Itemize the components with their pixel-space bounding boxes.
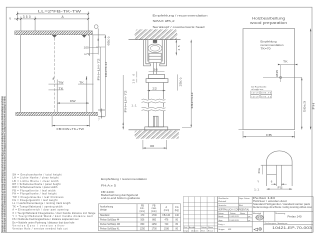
handle hole bbox=[280, 76, 282, 78]
revision grid labels bbox=[184, 226, 214, 232]
groove top surface line bbox=[261, 164, 292, 166]
svg-text:65(-): 65(-) bbox=[107, 37, 111, 46]
description text bbox=[253, 197, 312, 209]
svg-text:Gezeichn.: Gezeichn. bbox=[218, 205, 227, 207]
svg-text:FH=LH-72: FH=LH-72 bbox=[97, 58, 101, 81]
svg-text:GEZE: GEZE bbox=[256, 216, 263, 220]
svg-text:TK: TK bbox=[59, 86, 64, 90]
svg-text:13.05.2015: 13.05.2015 bbox=[229, 216, 238, 218]
break lines pair 1 bbox=[142, 99, 166, 103]
svg-text:FB-140: FB-140 bbox=[163, 215, 171, 217]
svg-text:DW: DW bbox=[70, 99, 76, 103]
small table at leaf weight bbox=[251, 87, 267, 92]
svg-text:Ausfuehrung: Ausfuehrung bbox=[100, 205, 114, 208]
dim DH=LH (section) bbox=[190, 40, 192, 128]
svg-text:DIN-44: DIN-44 bbox=[261, 96, 272, 98]
ceiling hatch band bbox=[135, 29, 178, 39]
leader note SPAX bbox=[153, 13, 208, 29]
svg-text:(mm): (mm) bbox=[151, 211, 157, 213]
roller wheel bbox=[148, 44, 162, 53]
svg-text:12fx9: 12fx9 bbox=[251, 93, 259, 95]
svg-text:Version Holz / version needed: Version Holz / version needed hub cut bbox=[12, 227, 67, 230]
notes above table bbox=[101, 177, 148, 200]
left margin rotated note text bbox=[1, 96, 6, 233]
svg-text:22: 22 bbox=[152, 87, 157, 91]
svg-text:(mm): (mm) bbox=[140, 211, 146, 213]
svg-text:Ø35: Ø35 bbox=[275, 69, 279, 77]
door panel middle bbox=[149, 103, 164, 108]
svg-text:Perlan SoftStop KL: Perlan SoftStop KL bbox=[100, 227, 120, 230]
svg-text:1036: 1036 bbox=[164, 228, 170, 230]
centerline dashed bbox=[54, 38, 56, 112]
svg-text:VERTRAULICH / CONFIDENTIAL: VERTRAULICH / CONFIDENTIAL bbox=[218, 209, 249, 212]
svg-text:Name: Name bbox=[208, 227, 213, 229]
svg-text:FS: FS bbox=[278, 185, 283, 189]
dim 22 bbox=[147, 90, 165, 92]
svg-text:10421-EP-70-003: 10421-EP-70-003 bbox=[272, 226, 312, 230]
svg-text:Benennung: Benennung bbox=[276, 213, 286, 215]
svg-text:13.05.15: 13.05.15 bbox=[191, 230, 198, 232]
svg-text:Gepr.: Gepr. bbox=[218, 219, 223, 222]
svg-text:TW: TW bbox=[58, 80, 63, 84]
clamp base bbox=[146, 79, 168, 83]
dim FH=LH-72 vertical bbox=[100, 47, 102, 112]
svg-text:1700: 1700 bbox=[152, 228, 158, 230]
svg-text:Holzbearbeitung: Holzbearbeitung bbox=[252, 17, 285, 21]
svg-text:Gepr. Datum: Gepr. Datum bbox=[239, 197, 250, 200]
svg-text:FH=LH-72: FH=LH-72 bbox=[124, 90, 128, 113]
svg-text:1:1: 1:1 bbox=[131, 103, 137, 107]
dim 45 bbox=[175, 40, 177, 56]
GEZE logo bbox=[256, 215, 264, 220]
svg-text:Perlan 140: Perlan 140 bbox=[288, 214, 302, 218]
dim FH bbox=[310, 29, 312, 130]
svg-text:Blatt: Blatt bbox=[239, 204, 243, 207]
svg-text:Datum: Datum bbox=[218, 212, 224, 215]
dim 30 bbox=[143, 140, 167, 149]
dim TW bbox=[49, 84, 94, 90]
svg-text:Zuwiderhandlungen verpflichten: Zuwiderhandlungen verpflichten zu Schade… bbox=[4, 96, 7, 233]
svg-text:Standard: Standard bbox=[100, 214, 110, 217]
svg-text:Datum: Datum bbox=[201, 226, 207, 229]
glass clamp plate bbox=[149, 74, 165, 78]
detail circle marker bbox=[94, 25, 98, 29]
up arrows at panel tops bbox=[53, 77, 54, 80]
svg-text:Perlan SoftStop 44: Perlan SoftStop 44 bbox=[100, 219, 120, 222]
svg-text:pe: pe bbox=[248, 216, 250, 218]
floor guide pin bbox=[153, 116, 158, 127]
svg-text:Empfehlung / recommendation: Empfehlung / recommendation bbox=[153, 13, 208, 17]
svg-text:≥70: ≥70 bbox=[84, 53, 91, 56]
svg-text:1250: 1250 bbox=[140, 228, 146, 230]
svg-text:Gruppe: Gruppe bbox=[218, 228, 224, 231]
svg-text:Perlan SoftStop 4M: Perlan SoftStop 4M bbox=[100, 223, 120, 226]
top track bar hatched bbox=[15, 31, 93, 35]
svg-text:Oberflaeche: Oberflaeche bbox=[218, 197, 228, 200]
bottom edge extension bbox=[239, 129, 244, 131]
svg-text:Empfehlung / recommendation: Empfehlung / recommendation bbox=[101, 177, 148, 181]
bottom bar end gap dim bbox=[98, 109, 105, 119]
svg-text:LL=2*FB-TK-TW: LL=2*FB-TK-TW bbox=[38, 10, 82, 14]
dim row2 line Y/350/A bbox=[14, 18, 88, 20]
mounting screw bbox=[153, 40, 157, 43]
right dim 65(-) bbox=[104, 35, 106, 117]
dim Ds bbox=[262, 165, 264, 174]
fixpoint triangle left bbox=[52, 35, 57, 38]
projection symbol bbox=[254, 228, 262, 231]
svg-text:Y: Y bbox=[257, 180, 259, 184]
svg-text:DH=LH: DH=LH bbox=[190, 93, 194, 109]
fixpoint triangle right bbox=[82, 35, 87, 38]
dome profile bbox=[267, 151, 293, 186]
svg-text:wood preparation: wood preparation bbox=[250, 21, 287, 25]
svg-text:12fx9: 12fx9 bbox=[251, 96, 259, 98]
table rows bbox=[100, 214, 180, 230]
svg-text:100: 100 bbox=[84, 47, 90, 50]
door panel rectangle bbox=[243, 29, 295, 130]
svg-text:1250: 1250 bbox=[152, 224, 158, 226]
leader line bbox=[157, 30, 161, 40]
note TK=70 bbox=[261, 39, 284, 50]
svg-text:Urspr.: Urspr. bbox=[184, 229, 190, 232]
svg-text:(kg): (kg) bbox=[175, 210, 179, 212]
svg-text:Datum: Datum bbox=[230, 212, 236, 215]
dim LL=2*FB-TK-TW line bbox=[17, 13, 88, 15]
svg-text:TK: TK bbox=[283, 59, 288, 63]
svg-text:Ds: Ds bbox=[257, 167, 261, 173]
svg-text:Aender.: Aender. bbox=[189, 226, 196, 229]
svg-text:Deckenmontage ohne Blende / ce: Deckenmontage ohne Blende / ceiling moun… bbox=[253, 206, 312, 209]
svg-text:10: 10 bbox=[131, 79, 135, 84]
svg-text:Freig. v.: Freig. v. bbox=[218, 223, 225, 226]
svg-text:FH: FH bbox=[312, 103, 316, 110]
svg-text:TK: TK bbox=[79, 80, 84, 84]
svg-text:50±3: 50±3 bbox=[303, 100, 307, 112]
door panel lower bbox=[149, 111, 164, 127]
svg-text:DH=LH: DH=LH bbox=[104, 62, 108, 77]
svg-text:1:1: 1:1 bbox=[254, 187, 260, 191]
svg-text:FG: FG bbox=[175, 207, 178, 209]
track profile bbox=[144, 40, 167, 66]
dim FH=LH-72 (section) bbox=[122, 75, 124, 129]
dim 100 bbox=[89, 47, 98, 49]
svg-text:pe: pe bbox=[248, 220, 250, 222]
groove bottom line bbox=[267, 173, 277, 175]
svg-text:Ers.f.: Ers.f. bbox=[201, 229, 206, 232]
title block small left labels bbox=[218, 197, 250, 231]
dim 16 bbox=[149, 70, 165, 72]
svg-text:end-to-end bottom guidance: end-to-end bottom guidance bbox=[101, 196, 141, 200]
svg-text:Senkkopf / countersunk head: Senkkopf / countersunk head bbox=[153, 25, 205, 29]
svg-text:25(-): 25(-) bbox=[178, 78, 182, 87]
svg-text:DIN-96: DIN-96 bbox=[261, 93, 272, 95]
hanger bracket bbox=[149, 53, 161, 74]
floor hatch band bbox=[134, 130, 179, 139]
svg-text:438: 438 bbox=[228, 229, 231, 231]
dim FS bbox=[267, 188, 293, 190]
svg-text:350: 350 bbox=[23, 15, 31, 19]
svg-text:FB=DW+TK+TW: FB=DW+TK+TW bbox=[57, 127, 85, 131]
svg-text:Massstab: Massstab bbox=[253, 212, 261, 215]
svg-text:design: design bbox=[100, 209, 107, 211]
dim 25(-) rotated bbox=[177, 74, 179, 90]
dim 50+-3 bbox=[301, 78, 303, 130]
svg-text:at height use: at height use bbox=[251, 88, 264, 91]
svg-text:16: 16 bbox=[153, 68, 158, 72]
panel edge lines bbox=[57, 29, 98, 113]
ceiling underside line bbox=[129, 39, 181, 41]
floor guide base plate bbox=[145, 127, 168, 130]
handle hole centerline bbox=[263, 77, 302, 79]
svg-text:(mm): (mm) bbox=[164, 210, 170, 212]
groove walls bbox=[275, 165, 277, 186]
table header bbox=[100, 205, 179, 212]
svg-text:Name: Name bbox=[240, 213, 245, 215]
svg-text:45: 45 bbox=[177, 45, 181, 50]
door panel upper bbox=[149, 83, 164, 100]
svg-text:Bearb.: Bearb. bbox=[218, 215, 224, 218]
svg-text:30: 30 bbox=[150, 144, 155, 148]
svg-text:13.05.2015: 13.05.2015 bbox=[229, 220, 238, 222]
svg-text:1700: 1700 bbox=[152, 215, 158, 217]
svg-text:Ers.d.: Ers.d. bbox=[208, 229, 213, 232]
svg-text:SPAX Ø5,2: SPAX Ø5,2 bbox=[153, 19, 175, 23]
svg-text:Zust: Zust bbox=[184, 226, 188, 229]
break lines pair 2 bbox=[142, 107, 166, 111]
floor top line bbox=[129, 129, 181, 131]
wall left edge bbox=[20, 35, 22, 112]
dim DW bbox=[57, 102, 89, 104]
door top edge line bbox=[93, 34, 106, 36]
dim FB=DW+TK+TW bbox=[52, 116, 90, 127]
dim FB bbox=[243, 131, 295, 138]
svg-text:TK=70: TK=70 bbox=[261, 47, 272, 51]
dim &#8805;70 bbox=[90, 53, 98, 55]
svg-text:Werkstoff: Werkstoff bbox=[218, 200, 226, 203]
svg-text:FH:A ≥ 5: FH:A ≥ 5 bbox=[101, 184, 117, 188]
svg-text:Zeichnungsnr. / drawing no.: Zeichnungsnr. / drawing no. bbox=[265, 222, 289, 225]
bottom track bar hatched bbox=[16, 112, 98, 115]
dim ticks bbox=[16, 13, 89, 20]
svg-text:FB: FB bbox=[266, 133, 272, 137]
